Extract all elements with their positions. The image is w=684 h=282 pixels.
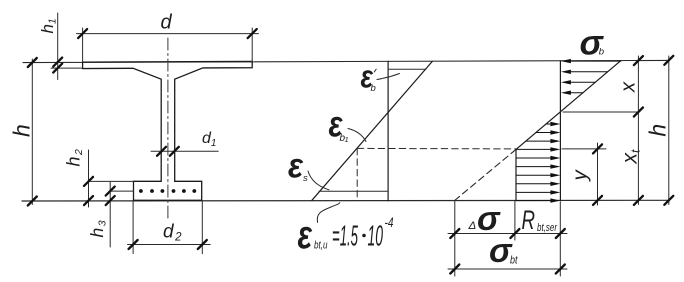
svg-text:x: x <box>618 81 640 93</box>
connector y level <box>562 148 606 150</box>
tension arrows <box>516 124 554 201</box>
tick dim2 left <box>450 265 459 274</box>
dimension d1 <box>151 150 218 152</box>
svg-text:h2: h2 <box>64 149 86 167</box>
svg-text:ε: ε <box>288 147 304 186</box>
tick d1 right <box>170 147 179 156</box>
svg-text:s: s <box>303 173 308 184</box>
dimension d <box>77 28 259 62</box>
dimension h3 <box>110 182 133 247</box>
leader eps_b1 <box>348 129 366 142</box>
connector at neutral axis <box>563 111 638 113</box>
svg-text:10: 10 <box>368 221 384 253</box>
I-beam section outline <box>83 61 253 200</box>
svg-text:h3: h3 <box>87 220 109 237</box>
leader eps_bt_u <box>317 203 340 223</box>
tick dim1 mid <box>510 229 519 238</box>
tick y top <box>593 144 602 153</box>
strain eps_b level line <box>388 68 426 70</box>
tick h1 top <box>53 58 62 67</box>
leader eps_b <box>377 74 400 80</box>
svg-text:y: y <box>569 169 592 183</box>
svg-text:R: R <box>522 205 536 235</box>
stress diagram diagonal <box>516 61 621 150</box>
svg-text:-4: -4 <box>385 214 394 230</box>
label y <box>569 169 592 183</box>
svg-text:d: d <box>161 12 173 34</box>
tick h2 top <box>84 177 93 186</box>
tick h2 bottom <box>84 196 93 205</box>
dashed vertical at eps_b1 <box>356 148 358 199</box>
tick d2 right <box>198 240 207 249</box>
tick x bottom <box>634 108 643 117</box>
svg-text:h: h <box>645 124 671 137</box>
x / xt dimension line <box>637 56 639 205</box>
tick h1 bottom <box>53 64 62 73</box>
tick dim1 left <box>450 229 459 238</box>
tick d left <box>78 29 87 38</box>
prime mark eps_b <box>374 69 376 72</box>
label h left <box>8 124 34 137</box>
svg-text:ε: ε <box>298 213 313 257</box>
svg-text:Δ: Δ <box>468 220 477 232</box>
leader eps_s <box>308 171 329 190</box>
tick h top <box>28 58 37 67</box>
svg-text:b: b <box>371 83 376 94</box>
tick d2 left <box>129 240 138 249</box>
tick dim1 right <box>556 229 565 238</box>
tick h3 top <box>106 187 115 196</box>
svg-text:h1: h1 <box>38 18 59 33</box>
svg-text:d2: d2 <box>163 222 182 244</box>
beam centerline <box>167 38 169 220</box>
label h2 <box>64 149 86 167</box>
y dimension line <box>597 143 599 205</box>
svg-text:=1.5: =1.5 <box>332 221 358 253</box>
tick y bottom <box>593 196 602 205</box>
dashed stress continuation <box>455 149 516 200</box>
tick xt bottom <box>634 196 643 205</box>
svg-text:b: b <box>599 47 604 58</box>
stress diagram axis <box>559 61 561 201</box>
label xt <box>619 149 643 165</box>
tick h3 bottom <box>106 196 115 205</box>
tick dim2 right <box>556 265 565 274</box>
tick d1 left <box>157 147 166 156</box>
dimension h left <box>31 59 33 205</box>
svg-text:d1: d1 <box>202 130 216 149</box>
dashed horizontal R_bt level <box>357 147 516 150</box>
tick d right <box>248 29 257 38</box>
bottom dims extension lines <box>448 201 567 276</box>
tick h bottom <box>28 197 37 206</box>
bottom fiber line <box>22 199 669 202</box>
rebar dots <box>139 189 196 193</box>
svg-text:bt: bt <box>510 255 518 267</box>
label h right <box>645 124 671 137</box>
tick h right bottom <box>664 196 673 205</box>
stress block edge R_bt,ser <box>515 149 517 200</box>
svg-text:xt: xt <box>619 149 643 165</box>
svg-text:bt,u: bt,u <box>314 240 328 252</box>
label h3 <box>87 220 109 237</box>
label h1 <box>38 18 59 33</box>
svg-text:bt,ser: bt,ser <box>537 222 558 234</box>
strain eps_s level line <box>319 190 388 192</box>
strain diagram axis <box>387 61 389 200</box>
strain diagram diagonal <box>312 61 432 200</box>
dimension h2 <box>89 150 134 207</box>
dimension h1 <box>51 13 83 80</box>
tick h right top <box>664 56 673 65</box>
svg-text:h: h <box>8 124 34 137</box>
compression arrows <box>566 61 621 93</box>
top fiber line <box>23 60 669 62</box>
svg-text:1: 1 <box>345 135 349 144</box>
h dimension line right <box>668 56 670 205</box>
label x <box>618 81 640 93</box>
dimension d2 <box>128 201 211 254</box>
tick x top <box>634 56 643 65</box>
